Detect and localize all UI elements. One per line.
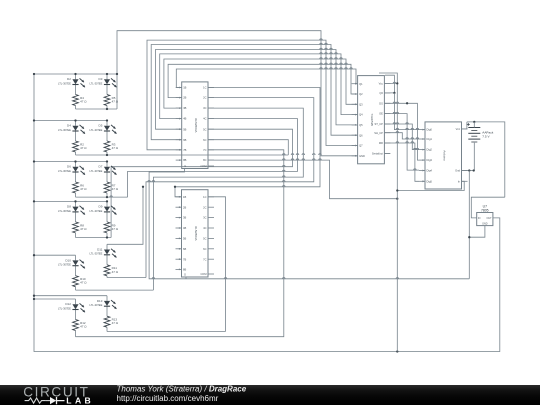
junction DS line — [406, 102, 408, 104]
wire OE to Dig4 — [384, 114, 419, 171]
LED D3 + resistor R5 — [89, 74, 118, 109]
wire arc U1 pin 5B to U3 pin — [156, 50, 358, 130]
LED D5 + resistor R3 — [89, 121, 118, 156]
svg-text:47 Ω: 47 Ω — [112, 100, 119, 104]
footer title text — [117, 384, 247, 393]
svg-text:LTL-307EE: LTL-307EE — [58, 306, 71, 310]
LED D7 + resistor R7 — [89, 162, 118, 198]
wire +5V vertical right — [396, 83, 398, 351]
wire regulator GND — [469, 226, 485, 238]
svg-text:DS: DS — [379, 101, 383, 105]
LED D2 + resistor R4 — [58, 74, 87, 109]
wire gnd vertical right — [468, 171, 470, 279]
wire arc U1 pin 3B to U3 pin — [164, 59, 358, 108]
svg-text:47 Ω: 47 Ω — [80, 227, 87, 231]
junction branch tee — [106, 200, 108, 202]
wire Arduino Gnd to battery- — [462, 170, 474, 172]
svg-text:ULN2803A: ULN2803A — [194, 118, 198, 133]
svg-text:LTL-307EE: LTL-307EE — [58, 263, 71, 267]
svg-text:LAB: LAB — [66, 395, 94, 405]
svg-text:Q1: Q1 — [359, 82, 363, 86]
junction branch tee — [74, 73, 76, 75]
wire row5A bottom — [76, 289, 154, 291]
svg-text:D5: D5 — [99, 124, 103, 128]
junction 8C net at +5V vertical — [396, 198, 398, 200]
wire U1 3C to row5A — [153, 108, 303, 290]
svg-text:COM: COM — [200, 164, 206, 168]
svg-text:8B: 8B — [183, 158, 186, 162]
svg-text:5C: 5C — [203, 127, 206, 131]
wire battery top lead — [473, 122, 475, 126]
CircuitLab logo wordmark — [23, 385, 89, 400]
svg-text:Q2: Q2 — [359, 92, 363, 96]
wire row4 bottom — [76, 237, 112, 239]
svg-text:1B: 1B — [183, 195, 186, 199]
svg-text:Vcc: Vcc — [456, 127, 461, 131]
svg-text:2C: 2C — [203, 205, 206, 209]
svg-text:COM: COM — [200, 272, 206, 276]
svg-text:D3: D3 — [99, 77, 103, 81]
wire row6B top — [34, 295, 107, 297]
junction row1 top crossing — [116, 73, 118, 75]
wire ST_CP to Dig2 — [384, 124, 419, 150]
svg-text:D4: D4 — [67, 124, 71, 128]
junction arduino in — [396, 189, 398, 191]
svg-text:LTL-307EE: LTL-307EE — [89, 209, 102, 213]
junction branch tee — [106, 154, 108, 156]
svg-text:Vcc: Vcc — [379, 82, 384, 86]
svg-text:D2: D2 — [67, 77, 71, 81]
svg-text:47 Ω: 47 Ω — [112, 270, 119, 274]
wire arc U1 pin 6B to U3 pin — [151, 45, 357, 140]
junction gnd bat — [473, 169, 475, 171]
wire Q0 to Dig0 — [394, 93, 419, 130]
svg-text:Dig0: Dig0 — [427, 128, 433, 132]
svg-text:3C: 3C — [203, 216, 206, 220]
svg-text:LTL-307EE: LTL-307EE — [89, 128, 102, 132]
wire row1 top — [34, 73, 117, 75]
LED D12 + resistor R12 — [58, 299, 87, 337]
svg-text:3B: 3B — [183, 106, 186, 110]
wire row5A top — [34, 254, 76, 256]
svg-text:74HC595: 74HC595 — [370, 113, 374, 126]
junction branch tee — [106, 73, 108, 75]
footer bar — [0, 385, 540, 405]
logo diode symbol — [46, 397, 65, 404]
svg-text:2B: 2B — [183, 205, 186, 209]
wire MR to Dig5 — [384, 143, 419, 181]
logo resistor symbol — [25, 398, 46, 403]
svg-text:LTL-307EE: LTL-307EE — [89, 81, 102, 85]
svg-text:Q4: Q4 — [359, 113, 363, 117]
svg-text:Dig1: Dig1 — [427, 137, 433, 141]
svg-text:1C: 1C — [203, 86, 206, 90]
wire arc U1 pin 1B to U3 pin — [176, 69, 357, 88]
svg-text:5C: 5C — [203, 237, 206, 241]
svg-text:7805: 7805 — [481, 208, 489, 212]
voltage regulator U7 7805 — [477, 205, 493, 226]
op-amp U1 ULN2803A darlington array — [176, 82, 214, 169]
svg-text:LTL-307EE: LTL-307EE — [89, 169, 102, 173]
svg-text:47 Ω: 47 Ω — [80, 100, 87, 104]
svg-text:Q3: Q3 — [359, 102, 363, 106]
wire U1 4C to row3 — [128, 119, 298, 198]
wire Q7S stub — [384, 152, 390, 154]
svg-text:D11: D11 — [97, 248, 103, 252]
svg-text:OE: OE — [379, 112, 383, 116]
wire row6B bottom — [107, 331, 226, 333]
svg-text:4C: 4C — [203, 226, 206, 230]
junction gnd tap — [468, 169, 470, 171]
svg-text:1C: 1C — [203, 195, 206, 199]
svg-text:7B: 7B — [183, 148, 186, 152]
junction U3 Vcc — [396, 82, 398, 84]
junction branch tee — [106, 196, 108, 198]
op-amp U3 74HC595 shift register — [352, 76, 391, 164]
wire SH_CP to Dig1 — [384, 133, 419, 139]
svg-text:D7: D7 — [99, 165, 103, 169]
svg-text:D9: D9 — [99, 205, 103, 209]
junction U2 1B hook — [174, 186, 176, 188]
wire row2 top — [34, 120, 107, 122]
wire row6A top — [34, 298, 76, 300]
svg-text:8C: 8C — [203, 158, 206, 162]
svg-text:GND: GND — [359, 154, 365, 158]
junction bus row2 — [33, 119, 35, 121]
svg-text:47 Ω: 47 Ω — [112, 187, 119, 191]
LED D11 + resistor R11 — [89, 244, 118, 277]
svg-text:http://circuitlab.com/cevh6mr: http://circuitlab.com/cevh6mr — [117, 394, 219, 403]
LED D10 + resistor R10 — [58, 255, 87, 290]
logo LAB text — [66, 395, 94, 405]
wire row5B bottom — [107, 277, 146, 279]
op-amp U2 ULN2803A darlington array — [176, 190, 215, 277]
svg-text:Thomas York (Straterra) / Drag: Thomas York (Straterra) / DragRace — [117, 385, 247, 393]
svg-text:ST_CP: ST_CP — [375, 122, 384, 126]
svg-text:2C: 2C — [203, 96, 206, 100]
svg-text:Serial/out: Serial/out — [372, 152, 383, 156]
LED D13 + resistor R13 — [89, 296, 118, 332]
svg-text:Q7: Q7 — [359, 144, 363, 148]
svg-text:D8: D8 — [67, 205, 71, 209]
svg-text:5B: 5B — [183, 237, 186, 241]
svg-text:3C: 3C — [203, 106, 206, 110]
junction branch tee — [74, 119, 76, 121]
wire arc U1 pin 2B to U3 pin — [168, 64, 358, 97]
svg-text:G: G — [184, 164, 186, 168]
junction battery+ — [473, 121, 475, 123]
wire Arduino Vcc hook — [462, 122, 467, 129]
wire U3 Vcc hook — [379, 73, 397, 83]
svg-text:47 Ω: 47 Ω — [112, 227, 119, 231]
junction row5B top to 1C net — [142, 186, 144, 188]
svg-text:D12: D12 — [65, 302, 71, 306]
svg-text:7B: 7B — [183, 257, 186, 261]
svg-text:6C: 6C — [203, 247, 206, 251]
junction bus row3 — [33, 160, 35, 162]
svg-text:MR: MR — [379, 141, 383, 145]
svg-text:Gnd: Gnd — [455, 169, 460, 173]
svg-text:LTL-307EE: LTL-307EE — [58, 81, 71, 85]
svg-text:Arduino: Arduino — [442, 150, 446, 161]
wire row1 to shift register (outer arc) — [117, 31, 358, 156]
junction branch tee — [74, 200, 76, 202]
svg-text:7C: 7C — [203, 257, 206, 261]
svg-text:47 Ω: 47 Ω — [112, 321, 119, 325]
svg-text:4B: 4B — [183, 226, 186, 230]
svg-text:LTL-307EE: LTL-307EE — [89, 252, 102, 256]
svg-text:D13: D13 — [97, 299, 103, 303]
svg-text:Dig2: Dig2 — [427, 148, 433, 152]
svg-text:47 Ω: 47 Ω — [112, 146, 119, 150]
wire row2 bottom (net 6C) — [76, 154, 289, 156]
wire row3 top — [34, 161, 107, 163]
junction branch tee — [106, 160, 108, 162]
svg-text:IN: IN — [478, 217, 481, 220]
wire row1 bottom — [76, 108, 118, 110]
svg-text:D10: D10 — [65, 258, 71, 262]
svg-text:3B: 3B — [183, 216, 186, 220]
battery V1 AAPack 7.5V — [467, 123, 494, 143]
svg-text:4B: 4B — [183, 117, 186, 121]
svg-text:Q5: Q5 — [359, 123, 363, 127]
svg-text:Dig4: Dig4 — [427, 169, 433, 173]
svg-text:ULN2803A: ULN2803A — [194, 226, 198, 241]
svg-text:LTL-307EE: LTL-307EE — [89, 303, 102, 307]
wire row4 top — [34, 200, 107, 202]
junction bus row6B — [33, 295, 35, 297]
wire U1 1C to U2 1B — [175, 88, 320, 197]
svg-text:5B: 5B — [183, 127, 186, 131]
svg-text:6B: 6B — [183, 138, 186, 142]
wire U1 6C to row2 — [208, 140, 288, 155]
svg-text:47 Ω: 47 Ω — [80, 187, 87, 191]
svg-text:7C: 7C — [203, 148, 206, 152]
LED D6 + resistor R6 — [58, 162, 87, 198]
svg-text:Q0: Q0 — [379, 91, 383, 95]
wire battery+ rail — [467, 122, 505, 197]
wire row6A bottom (net 7C) — [76, 150, 284, 337]
junction Q0 — [393, 92, 395, 94]
wire crossing hops — [110, 39, 419, 279]
svg-text:8B: 8B — [183, 268, 186, 272]
svg-text:47 Ω: 47 Ω — [80, 325, 87, 329]
wire U3 Q0 hook — [384, 75, 394, 93]
junction reg gnd — [468, 236, 470, 238]
wire DS to Dig3 — [384, 103, 419, 160]
LED D9 + resistor R9 — [89, 201, 118, 237]
svg-text:7.5 V: 7.5 V — [482, 135, 490, 139]
wire U1 5C to row4 — [111, 129, 292, 237]
svg-text:47 Ω: 47 Ω — [80, 146, 87, 150]
svg-text:G: G — [184, 273, 186, 277]
svg-text:LTL-307EE: LTL-307EE — [58, 209, 71, 213]
svg-text:4C: 4C — [203, 117, 206, 121]
wire +5V bus: regulator OUT, bottom bus, left bus — [34, 74, 500, 352]
LED D8 + resistor R8 — [58, 201, 87, 237]
junction bus row6A — [33, 298, 35, 300]
footer url text — [117, 394, 219, 403]
svg-text:47 Ω: 47 Ω — [80, 281, 87, 285]
svg-text:GND: GND — [482, 223, 488, 226]
junction branch tee — [74, 160, 76, 162]
svg-text:2B: 2B — [183, 96, 186, 100]
svg-text:SH_CP: SH_CP — [374, 131, 383, 135]
svg-text:6B: 6B — [183, 247, 186, 251]
wire regulator IN hook — [471, 197, 505, 218]
svg-text:1B: 1B — [183, 86, 186, 90]
wire row5B top link — [107, 187, 143, 245]
junction branch tee — [106, 236, 108, 238]
wire U2 1C to row6B — [208, 197, 226, 332]
svg-text:LTL-307EE: LTL-307EE — [58, 128, 71, 132]
junction branch tee — [106, 119, 108, 121]
wire battery- lead — [473, 143, 475, 171]
wire U2 ground hook — [185, 277, 187, 279]
svg-text:6C: 6C — [203, 138, 206, 142]
LED D4 + resistor R2 — [58, 121, 87, 156]
svg-text:D6: D6 — [67, 165, 71, 169]
wire arc U1 pin 7B to U3 pin — [147, 40, 358, 150]
svg-text:LTL-307EE: LTL-307EE — [58, 169, 71, 173]
junction bus row1 — [33, 73, 35, 75]
wire ground: U1 GND down, across to right — [149, 169, 469, 279]
junction bus row4 — [33, 200, 35, 202]
junction branch tee — [106, 108, 108, 110]
op-amp U4 Arduino controller — [419, 122, 468, 189]
junction bus row5A — [33, 254, 35, 256]
svg-text:Dig3: Dig3 — [427, 158, 433, 162]
svg-text:Dig5: Dig5 — [427, 179, 433, 183]
junction +5V at regulator out corner — [396, 350, 398, 352]
wire Arduino In to +5V — [397, 181, 464, 190]
svg-text:OUT: OUT — [487, 217, 493, 220]
wire arc U1 pin 4B to U3 pin — [160, 54, 358, 119]
wire row3 bottom — [76, 196, 128, 198]
wire U1 2C to row5B — [146, 98, 314, 278]
wire U1 8C to +5V vertical — [208, 160, 397, 199]
svg-text:Q6: Q6 — [359, 133, 363, 137]
